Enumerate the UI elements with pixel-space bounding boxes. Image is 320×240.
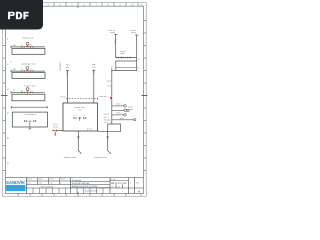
pipe P1	[11, 46, 45, 48]
svg-text:coupl.: coupl.	[129, 108, 135, 111]
drop line D1	[78, 131, 81, 154]
label U4	[24, 113, 37, 116]
mixer side text	[110, 67, 113, 72]
label assembly 2	[22, 63, 36, 66]
svg-text:gas: gas	[92, 67, 95, 69]
zone ticks top edge	[54, 3, 138, 9]
revision letter	[138, 189, 141, 193]
valve HV101	[21, 44, 24, 48]
riser V-A	[114, 35, 117, 58]
svg-text:valve: valve	[121, 52, 125, 55]
valve in B1 left	[74, 114, 77, 119]
svg-text:D: D	[7, 88, 9, 91]
logo text	[6, 180, 26, 185]
label left of S3	[103, 113, 109, 119]
riser V-A size text	[114, 39, 117, 44]
svg-text:outlet: outlet	[120, 117, 125, 120]
hose stub S2	[112, 105, 134, 111]
svg-text:Doc no: Doc no	[111, 178, 116, 181]
valve HV202	[30, 68, 33, 72]
valve HV102	[30, 44, 33, 48]
doc number	[111, 182, 127, 185]
hose stub S3	[112, 112, 126, 117]
unit box U4	[12, 112, 47, 127]
svg-text:conn 3: conn 3	[103, 113, 109, 116]
svg-text:aux: aux	[104, 116, 107, 119]
control valve red PV401	[29, 120, 31, 122]
sheet background	[0, 0, 149, 198]
manifold rect M3	[12, 94, 45, 101]
feed line F1	[66, 71, 69, 104]
zone numbers top	[48, 4, 144, 7]
pipe P2	[11, 70, 45, 72]
svg-text:Air cooling unit: Air cooling unit	[24, 113, 37, 116]
svg-text:Burner lance: Burner lance	[75, 106, 86, 109]
manifold rect M2	[12, 73, 45, 79]
svg-text:Purge air train: Purge air train	[24, 84, 36, 87]
svg-text:En: En	[112, 185, 114, 188]
svg-text:J.Oh: J.Oh	[27, 182, 31, 185]
label SD right	[99, 95, 107, 98]
valve on H1 far right	[127, 57, 130, 59]
pipe PR1 to box	[57, 130, 63, 132]
outer frame	[3, 3, 147, 197]
svg-text:ign. tip: ign. tip	[87, 128, 92, 131]
control valve red PV101	[26, 46, 28, 48]
riser V-B	[135, 35, 138, 58]
svg-text:SANDVIK: SANDVIK	[6, 180, 26, 185]
svg-text:Ignition gas train: Ignition gas train	[22, 63, 36, 66]
label assembly 1	[22, 37, 33, 40]
svg-text:Sheet: Sheet	[60, 178, 65, 181]
valve HV302	[30, 89, 33, 93]
svg-text:DN25: DN25	[92, 70, 95, 75]
zone ticks bottom edge	[18, 192, 141, 197]
regulator red PR1	[52, 129, 57, 131]
control valve red PV301	[26, 91, 28, 94]
svg-text:1: 1	[60, 182, 61, 185]
junction node red J1	[110, 97, 112, 99]
union on D2	[107, 136, 109, 138]
svg-text:A: A	[7, 162, 9, 165]
svg-text:10 m: 10 m	[104, 121, 108, 124]
bottom row tiny text	[85, 190, 98, 193]
right small cells	[112, 182, 140, 189]
label assembly 3	[24, 84, 36, 87]
gauge PI101	[26, 42, 29, 47]
svg-text:C: C	[7, 112, 9, 115]
label P2 end	[13, 68, 16, 71]
svg-text:set 2b: set 2b	[53, 125, 58, 128]
svg-text:hose 2: hose 2	[116, 112, 122, 115]
valve HV301	[21, 89, 24, 93]
pipe P3	[11, 91, 45, 93]
svg-text:To ignition lance: To ignition lance	[94, 156, 108, 159]
rotated line label near assembly 2	[59, 63, 62, 72]
svg-text:T.Bg: T.Bg	[38, 182, 41, 185]
mixer block MB	[116, 58, 140, 71]
svg-text:SANDVIK SRP AB: SANDVIK SRP AB	[72, 182, 90, 185]
label P3 end	[13, 89, 16, 92]
title block outline	[6, 178, 144, 194]
title block small headers	[27, 178, 116, 185]
vent stem PR1	[55, 132, 57, 136]
gauge PI201	[26, 67, 29, 72]
label drop D2	[94, 156, 108, 159]
svg-text:DN50: DN50	[114, 39, 117, 44]
logo bar	[6, 185, 25, 191]
svg-text:Scale: Scale	[49, 178, 53, 181]
control valve red PV201	[26, 70, 28, 72]
svg-text:supply: supply	[110, 31, 115, 34]
title text rows	[72, 179, 98, 188]
feed F2 size text	[92, 70, 95, 75]
zone ticks right edge	[142, 21, 148, 171]
label H1	[121, 50, 126, 55]
corner drop H1 right	[136, 58, 138, 61]
hose stub S1	[112, 103, 126, 108]
svg-text:unit: unit	[78, 108, 82, 111]
lance loop pipe	[98, 124, 121, 131]
svg-text:supply: supply	[131, 31, 136, 34]
label regulator PR1	[53, 123, 58, 128]
svg-text:E: E	[7, 63, 9, 66]
svg-text:lance: lance	[106, 80, 111, 83]
svg-text:ctrl sig: ctrl sig	[60, 96, 65, 99]
hose stub S4	[112, 117, 136, 121]
svg-text:B: B	[7, 137, 9, 140]
label drop D1	[63, 156, 76, 159]
svg-text:flame det: flame det	[99, 95, 107, 98]
valve HV401	[24, 120, 27, 122]
zone mark A2	[11, 60, 13, 63]
label B1 bottom right	[87, 128, 92, 131]
svg-text:gas: gas	[66, 67, 69, 69]
svg-text:BR 02-110 100: BR 02-110 100	[111, 182, 127, 185]
svg-text:Schematic: Schematic	[72, 179, 82, 182]
label SD left	[60, 96, 65, 99]
svg-text:conn: conn	[107, 84, 111, 87]
V4 side notes	[106, 80, 111, 88]
svg-text:Issued 2017-05: Issued 2017-05	[85, 190, 98, 193]
control valve red on H1	[120, 57, 122, 59]
manifold rect M1	[12, 49, 45, 55]
svg-text:x2: x2	[138, 58, 140, 61]
valve on H1 right	[123, 57, 126, 59]
bundle label	[104, 119, 111, 124]
svg-text:DN25 NG: DN25 NG	[59, 63, 62, 72]
signal dashed line SD	[66, 98, 98, 100]
node label feed F2	[92, 63, 96, 69]
svg-text:hose 1: hose 1	[116, 103, 122, 106]
svg-text:BURNER LANCE SYSTEM: BURNER LANCE SYSTEM	[72, 185, 98, 188]
svg-text:A2: A2	[118, 185, 120, 188]
valve on H1 left	[116, 57, 119, 59]
union on D1	[77, 136, 79, 138]
label P1 end	[13, 44, 16, 47]
pipe P4	[11, 106, 47, 108]
svg-text:Appd: Appd	[38, 178, 42, 181]
label B1	[75, 106, 86, 112]
svg-text:Pilot gas train: Pilot gas train	[22, 37, 33, 40]
gauge PI301	[26, 88, 29, 93]
downcomer V4	[111, 71, 113, 125]
zone letters left	[7, 38, 9, 165]
svg-text:NG: NG	[13, 44, 16, 47]
valve HV201	[21, 68, 24, 72]
node label V-B top	[130, 29, 136, 34]
drop line D2	[108, 124, 111, 154]
node label feed F1	[66, 64, 70, 70]
header H1	[116, 57, 137, 59]
title block mid cell text	[40, 185, 53, 188]
outlet H2	[112, 70, 116, 72]
valve HV402	[33, 120, 36, 122]
inner frame	[6, 6, 144, 193]
PDF badge	[0, 0, 43, 30]
svg-text:To burner lance: To burner lance	[63, 156, 76, 159]
svg-text:Drawn: Drawn	[27, 178, 32, 181]
svg-text:NG: NG	[13, 68, 16, 71]
svg-text:1:10: 1:10	[49, 182, 52, 185]
feed F1 size text	[65, 72, 68, 77]
zone ticks left edge	[1, 46, 8, 171]
node label V-A top	[107, 29, 115, 34]
svg-text:DN15: DN15	[65, 72, 68, 77]
burner box B1	[63, 103, 98, 131]
control valve red in B1	[79, 117, 81, 121]
svg-text:Flow schematic: Flow schematic	[40, 185, 53, 188]
drain stem U4	[29, 122, 31, 129]
feed line F2	[92, 71, 95, 104]
valve in B1 right	[83, 114, 86, 119]
